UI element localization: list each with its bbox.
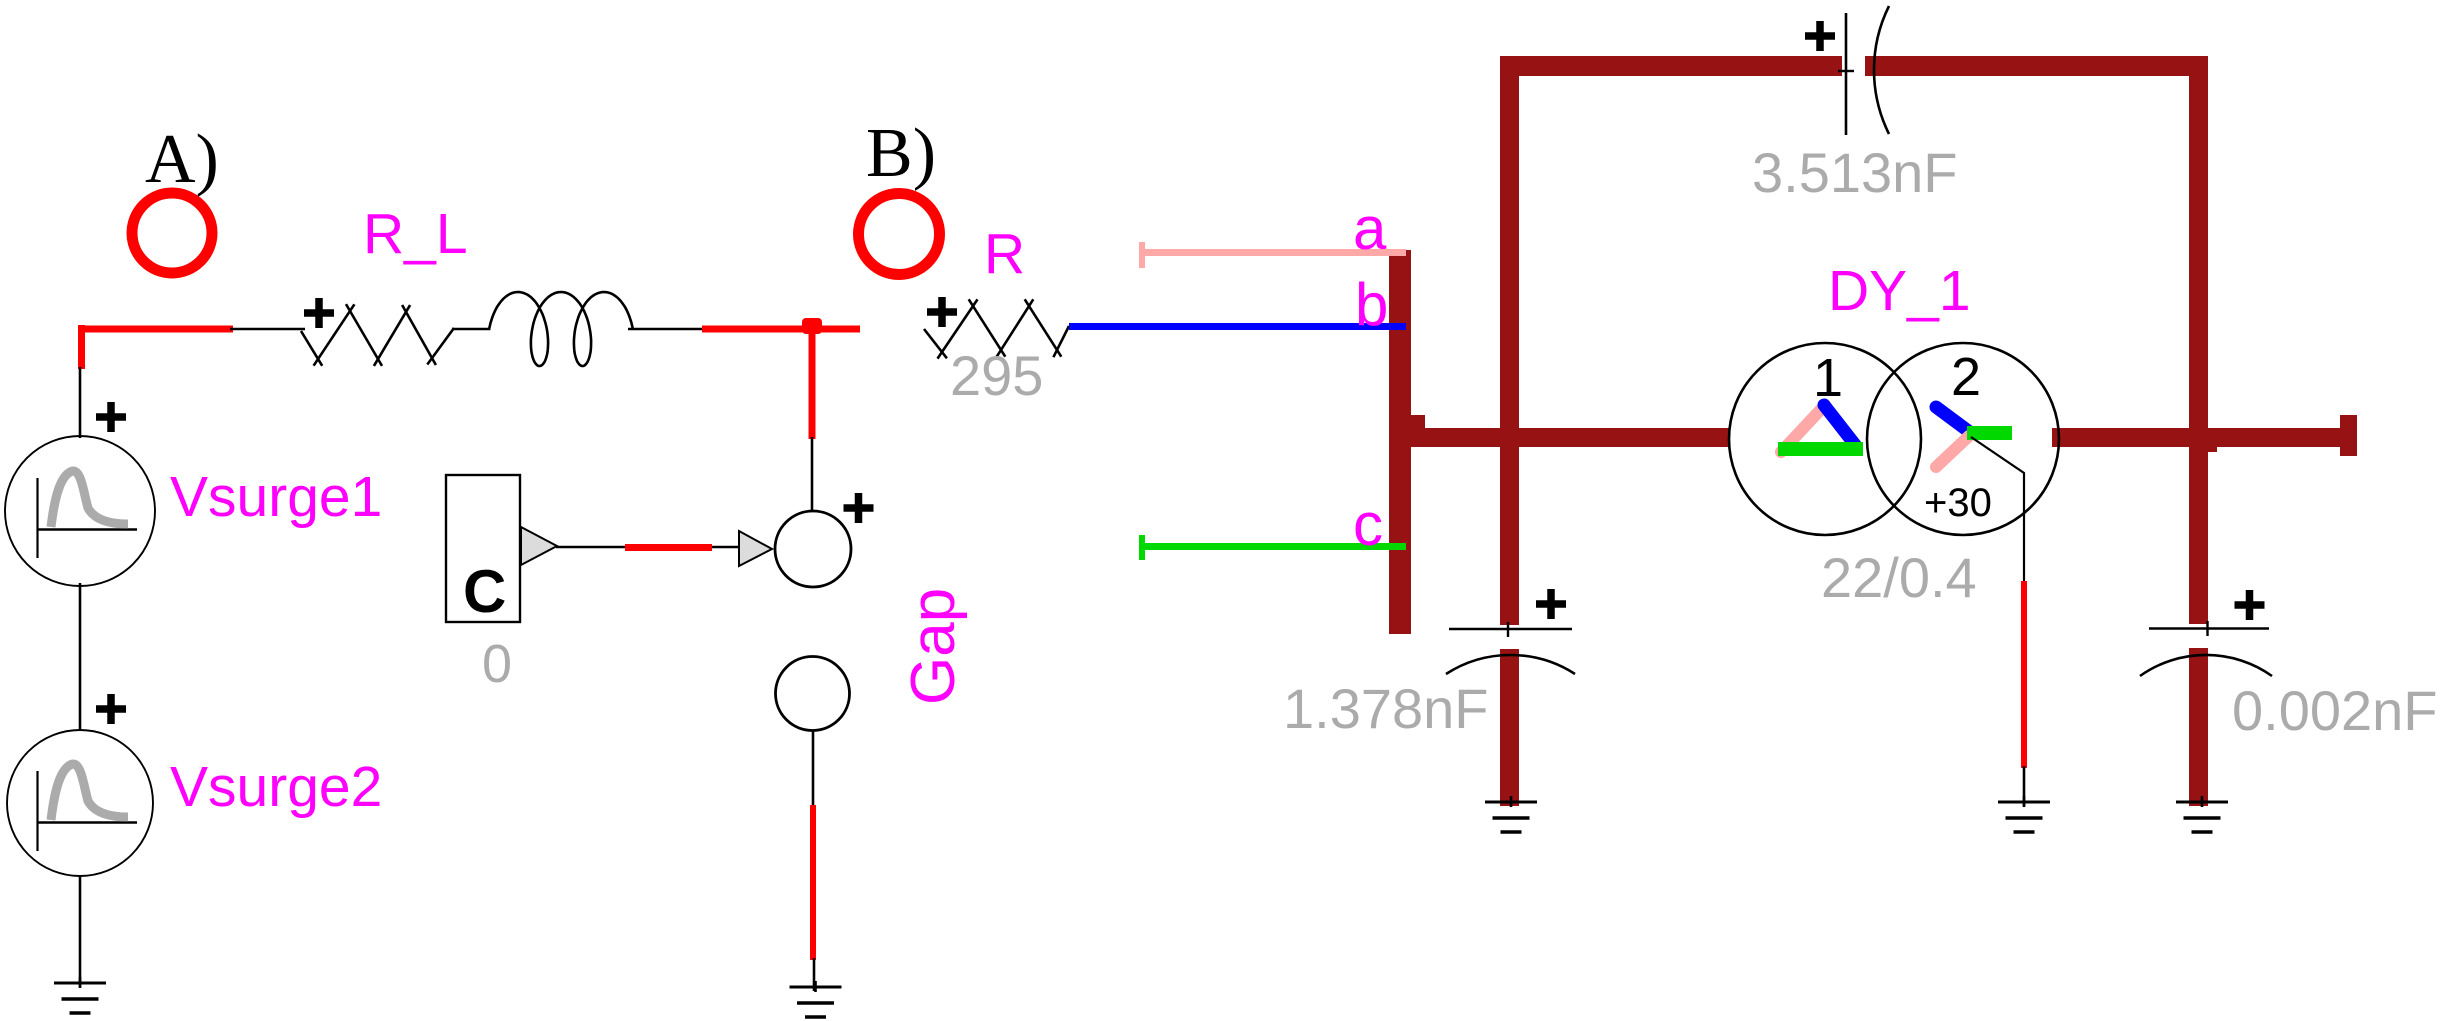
svg-text:Vsurge2: Vsurge2	[170, 755, 382, 819]
svg-text:0.002nF: 0.002nF	[2232, 679, 2438, 742]
svg-text:295: 295	[950, 344, 1043, 407]
svg-text:1.378nF: 1.378nF	[1283, 677, 1489, 740]
svg-text:A): A)	[145, 121, 219, 198]
svg-text:3.513nF: 3.513nF	[1752, 141, 1958, 204]
svg-text:+30: +30	[1924, 481, 1992, 525]
svg-text:22/0.4: 22/0.4	[1821, 546, 1977, 609]
svg-text:DY_1: DY_1	[1828, 259, 1971, 323]
svg-text:R_L: R_L	[363, 202, 468, 266]
svg-text:C: C	[463, 558, 506, 625]
svg-text:B): B)	[866, 115, 936, 192]
svg-text:2: 2	[1951, 347, 1981, 407]
svg-text:a: a	[1353, 195, 1387, 262]
svg-text:R: R	[984, 222, 1025, 286]
svg-text:b: b	[1355, 271, 1388, 338]
svg-text:Vsurge1: Vsurge1	[170, 465, 382, 529]
svg-text:Gap: Gap	[899, 588, 968, 705]
svg-text:0: 0	[482, 634, 512, 694]
svg-text:1: 1	[1813, 348, 1843, 408]
svg-text:c: c	[1353, 491, 1383, 558]
